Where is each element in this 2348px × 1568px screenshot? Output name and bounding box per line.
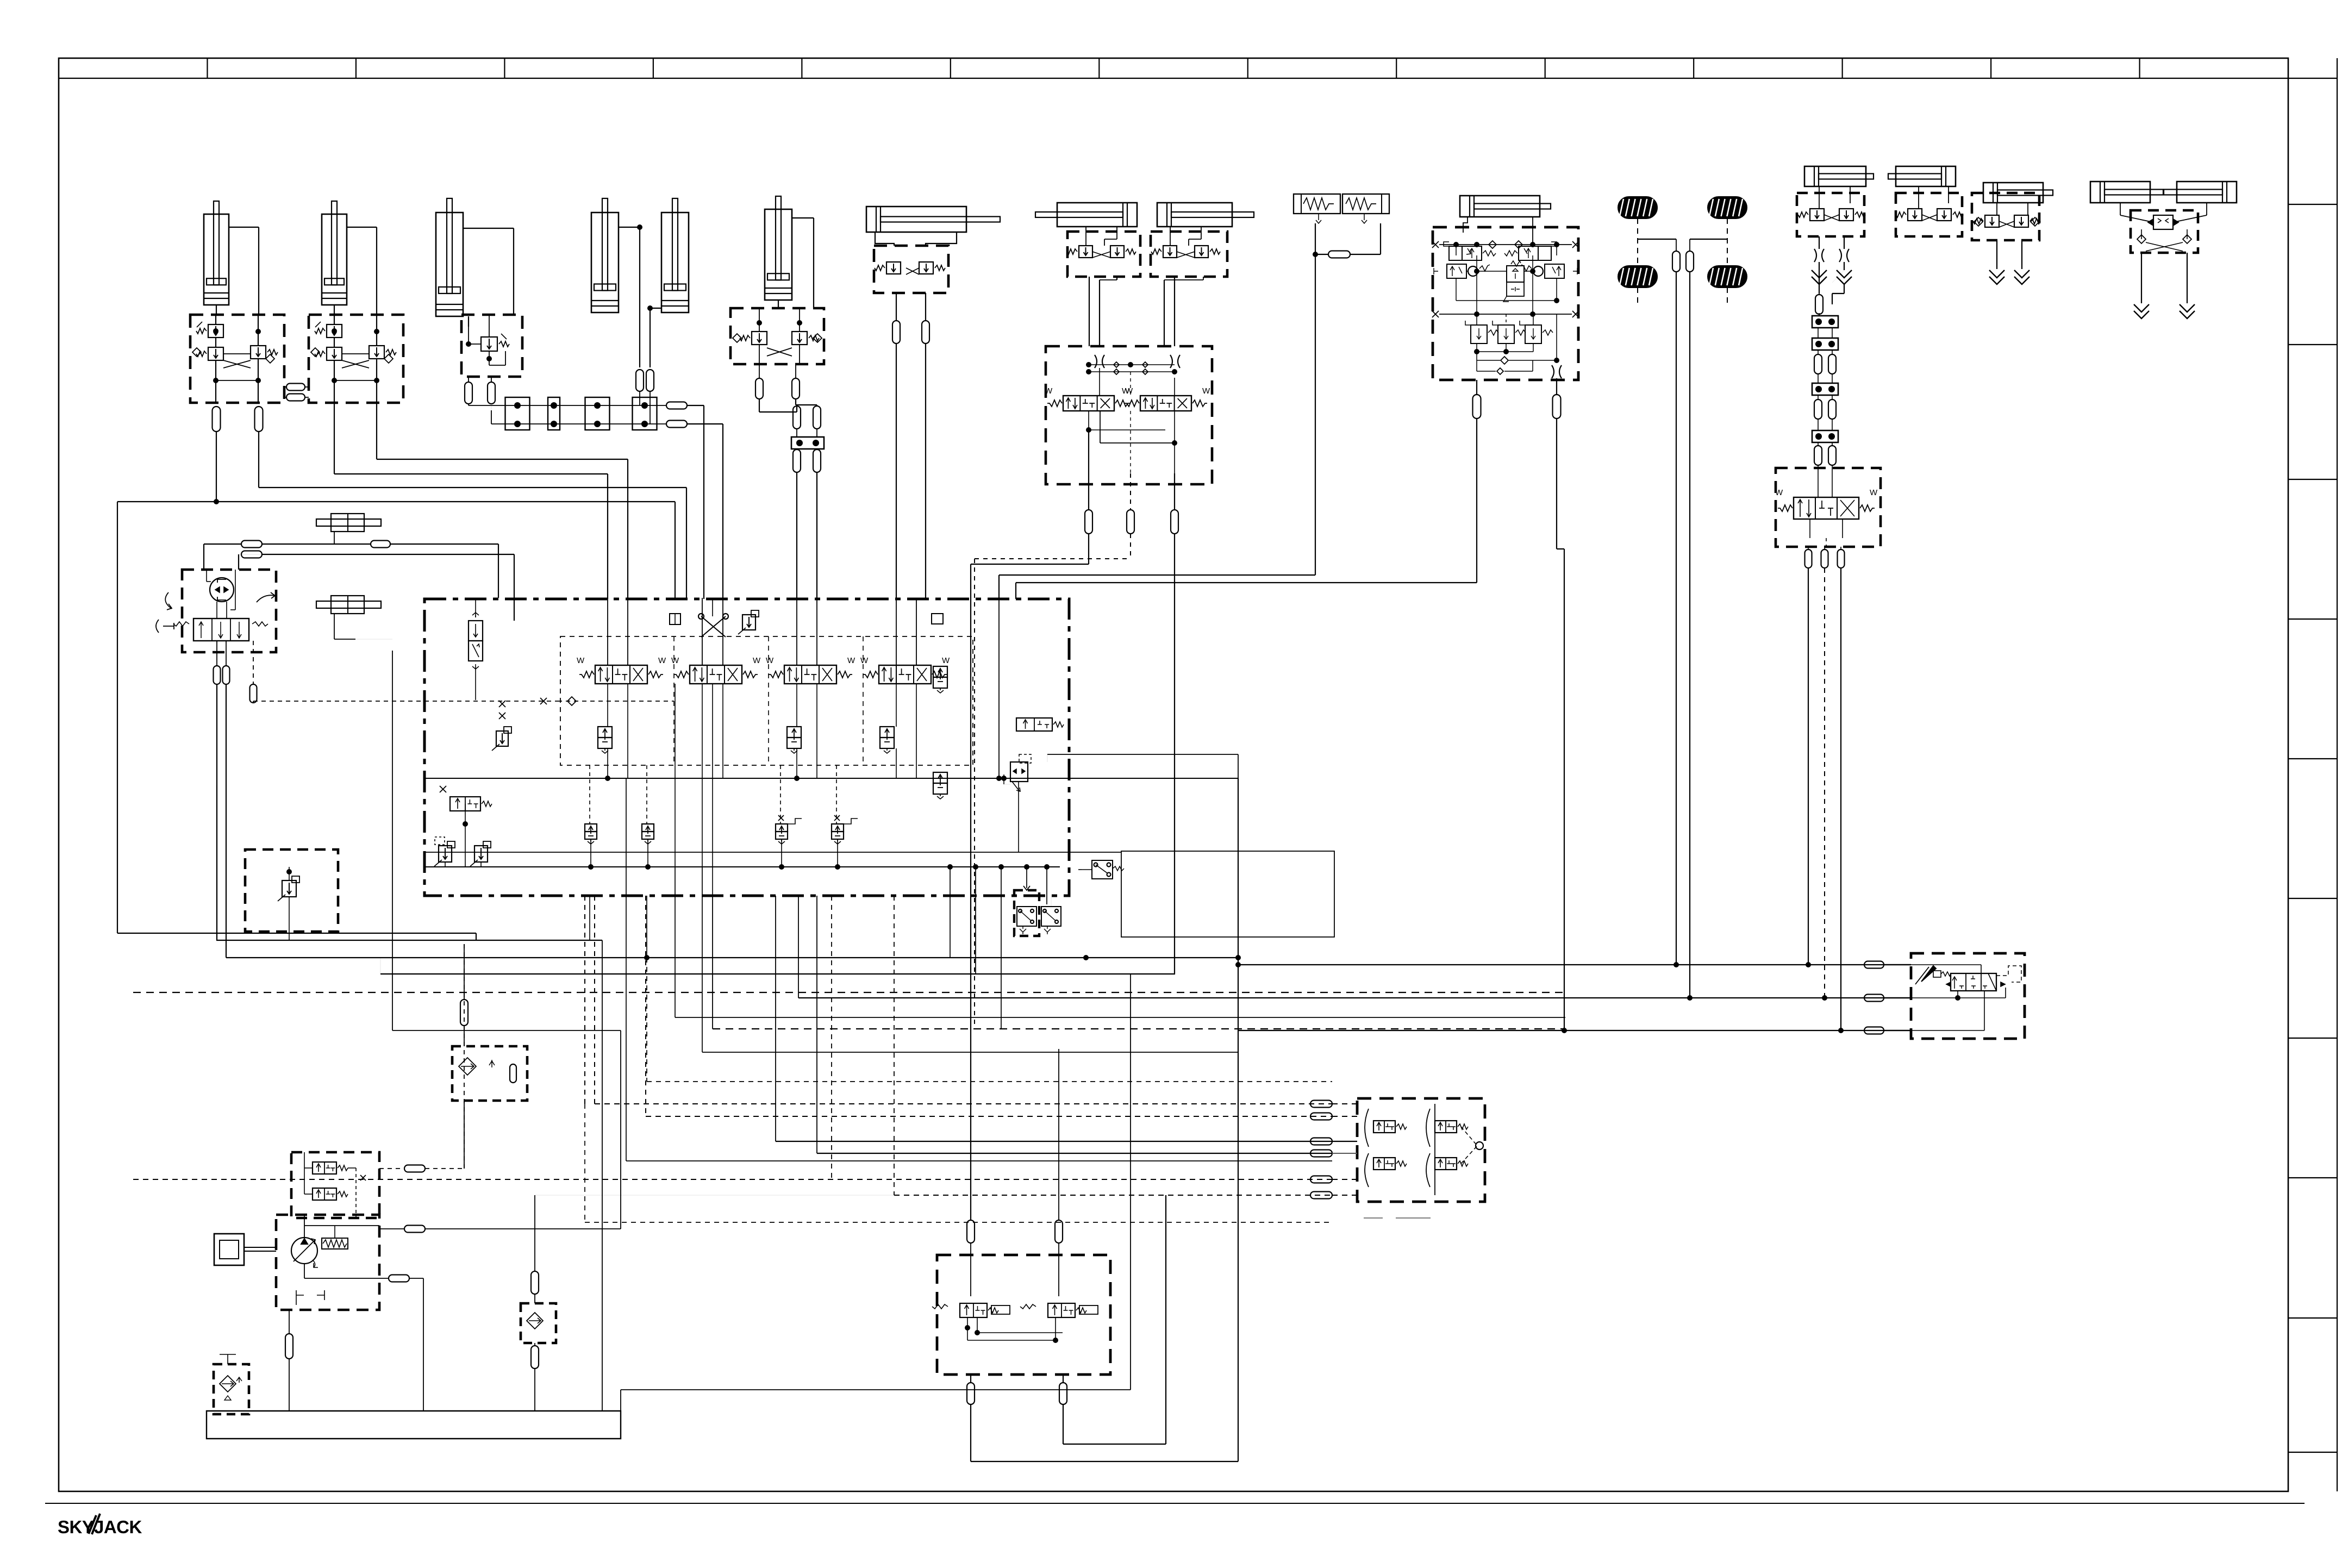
wire MB9 bottom xyxy=(1476,314,1477,325)
switch SW1 xyxy=(1092,860,1113,879)
wire MB16 bottom-left xyxy=(445,862,446,867)
valve PV2 xyxy=(787,727,801,738)
wire bus y1896 xyxy=(1238,1030,1911,1031)
shuttle X1 xyxy=(701,616,726,637)
cylinder CYL7 xyxy=(866,207,966,232)
wire bus y1893 pilot xyxy=(713,1028,1565,1029)
wire SC ports xyxy=(1819,186,1820,209)
wire CYL3 ports xyxy=(463,228,514,229)
lever L2 xyxy=(1921,966,1936,982)
wire top buses xyxy=(204,544,241,545)
valve CB1c xyxy=(251,346,266,359)
coupler CH3 xyxy=(1989,270,2004,278)
valve CB10a xyxy=(1810,209,1824,221)
wire y2100 from manifold xyxy=(776,1141,1332,1142)
wire bus y1717 xyxy=(117,933,476,934)
svg-text:W: W xyxy=(847,656,855,665)
fitting F52 xyxy=(967,1383,975,1404)
valve LW2 xyxy=(1048,1303,1075,1317)
svg-text:W: W xyxy=(1202,386,1210,396)
valve CB6a xyxy=(1079,246,1092,258)
valve LV5 (center relief) xyxy=(1507,266,1524,282)
fitting F60 xyxy=(531,1346,539,1369)
wire MB16 valve bottom drops xyxy=(627,684,628,778)
fitting F36 xyxy=(241,551,262,558)
wire MB16 mid xyxy=(607,684,608,727)
wire pump internal xyxy=(304,1215,305,1238)
valve LV2 xyxy=(1519,246,1538,260)
fitting F14 xyxy=(813,406,821,429)
valve CB10b xyxy=(1839,209,1853,221)
wire to risers xyxy=(687,405,704,406)
manifold MB21 (pump box) xyxy=(276,1215,379,1310)
wire y2122 xyxy=(817,1153,1332,1154)
wheel W1 xyxy=(1618,197,1657,218)
valve CB4b xyxy=(792,332,807,345)
fitting F57 xyxy=(389,1275,409,1282)
valve BR1 xyxy=(1373,1121,1395,1133)
fitting F10 xyxy=(666,421,687,428)
wire MC1 xyxy=(334,532,335,544)
valve CB13a xyxy=(1985,215,1999,227)
wire MB3 internal xyxy=(468,327,469,344)
valve FD1 xyxy=(2153,215,2173,229)
wire MB9 x-bus xyxy=(1439,314,1572,315)
svg-text:W: W xyxy=(658,656,666,665)
coupler CH2 xyxy=(1837,270,1852,278)
fitting F46 xyxy=(1310,1138,1332,1145)
manifold MB2 (counterbalance box) xyxy=(309,315,403,403)
wire CYL7 bracket xyxy=(875,232,957,246)
cylinder CYL4 xyxy=(602,198,608,291)
manifold MB14 (flow divider box) xyxy=(2131,210,2198,253)
wire bus y1762 xyxy=(226,957,1238,958)
manifold MB18 (brake release box) xyxy=(1357,1098,1485,1202)
wire MB19 drops xyxy=(970,1375,971,1383)
cylinder SB1 (spring brake) xyxy=(1294,194,1340,214)
wire orbitrol risers xyxy=(216,684,217,940)
wire bus y1730 xyxy=(216,940,602,941)
wire MC2 xyxy=(334,614,335,639)
valve SV2 xyxy=(1016,718,1052,731)
wire CYL7 risers xyxy=(896,293,897,321)
svg-text:W: W xyxy=(1045,386,1053,396)
svg-text:W: W xyxy=(753,656,761,665)
wire bus y1775 xyxy=(1238,964,1911,965)
wire pump out case xyxy=(379,1278,389,1279)
wire wheel stubs xyxy=(1637,288,1638,304)
wire MB18 tags xyxy=(1364,1217,1383,1219)
fitting F41 xyxy=(1864,961,1884,969)
valve RV7 xyxy=(474,846,488,862)
valve CB11a xyxy=(1908,209,1922,221)
fitting F30 xyxy=(1814,399,1822,419)
wire CYL6 risers xyxy=(796,429,797,437)
wire box2 drop A xyxy=(334,403,335,474)
valve PV1 xyxy=(598,727,612,738)
wire CYL2 ports xyxy=(347,227,377,228)
fitting F48 xyxy=(1310,1176,1332,1183)
coupler CH6 xyxy=(2180,304,2195,312)
fitting F22 xyxy=(1328,251,1350,258)
wire SB lines xyxy=(1315,223,1316,254)
wire orbitrol drops xyxy=(216,641,217,666)
wire pump drain xyxy=(289,1310,290,1334)
wire MB16 valve risers xyxy=(607,598,608,665)
wire MB18 feeds xyxy=(1332,1103,1357,1104)
fitting F30b xyxy=(1814,446,1822,465)
valve DV16D xyxy=(879,665,931,684)
cylinder CYL8A xyxy=(1057,203,1137,227)
tank T1 xyxy=(207,1411,621,1439)
wire bus y1826 pilot xyxy=(133,992,1565,993)
valve 42V xyxy=(469,621,483,641)
manifold MB11 xyxy=(1896,193,1962,236)
fitting F3 link xyxy=(286,384,305,391)
junction J5 xyxy=(791,437,824,449)
manifold MB23 (filter check) xyxy=(452,1046,527,1101)
wire CYL9 ports xyxy=(1463,217,1467,233)
valve CB5b xyxy=(919,262,933,274)
cylinder CYL12 xyxy=(2177,182,2237,203)
fitting F9 xyxy=(666,402,687,409)
valve DV16A xyxy=(595,665,647,684)
wire MB16 inner dividers xyxy=(673,636,675,765)
valve BV2 xyxy=(642,824,654,832)
fitting F33 xyxy=(1821,549,1828,568)
manifold MB20 (brake valve box) xyxy=(291,1152,379,1218)
valve CB11b xyxy=(1937,209,1951,221)
valve BV3 xyxy=(776,824,788,832)
fitting F1 xyxy=(213,407,221,432)
svg-text:W: W xyxy=(1775,488,1783,497)
fitting F26 xyxy=(1686,251,1694,272)
component SQ2 xyxy=(932,614,943,624)
wire wheel drops xyxy=(1676,272,1677,965)
pump P2 (gerotor) xyxy=(210,578,234,602)
valve CK1 xyxy=(282,880,296,897)
coupler CH4 xyxy=(2014,270,2029,278)
title strip bottom line xyxy=(59,78,2288,79)
wire bus y1792 xyxy=(380,973,1175,974)
valve LV3 xyxy=(1447,264,1466,278)
svg-text:W: W xyxy=(860,656,869,665)
wire CYL6 ports xyxy=(792,217,814,218)
fitting F4 link xyxy=(286,394,305,401)
fitting F37 xyxy=(371,541,390,548)
wire MB9 top bus xyxy=(1439,244,1572,245)
manifold MB24 (return filter) xyxy=(521,1303,556,1343)
valve RV1 xyxy=(1471,325,1487,343)
cylinder CYL11 xyxy=(2090,182,2150,203)
wire steer drop A xyxy=(1819,236,1820,249)
wire CYL11-12 drops xyxy=(2141,253,2142,303)
fitting F17 xyxy=(892,321,900,343)
fitting F31b xyxy=(1828,446,1836,465)
fitting F31 xyxy=(1828,399,1836,419)
wire xyxy=(1819,293,1820,295)
fitting F44 xyxy=(1310,1101,1332,1108)
wire MB19 tank returns xyxy=(970,1404,971,1461)
fitting F29 xyxy=(1828,354,1836,374)
manifold MB16 (main valve block) xyxy=(424,599,1069,896)
wheel W2 xyxy=(1708,197,1747,218)
fitting F38 xyxy=(214,666,221,684)
wire MB2 internal xyxy=(334,315,335,324)
wire steer drop B xyxy=(1844,236,1845,249)
fitting F42 xyxy=(1864,995,1884,1002)
fitting F7 xyxy=(636,370,644,391)
fitting F34 xyxy=(1838,549,1845,568)
valve CB6b xyxy=(1110,246,1124,258)
wire y2054 xyxy=(646,1116,1332,1117)
manifold MB4 (counterbalance box) xyxy=(730,308,824,364)
valve DV8A xyxy=(1063,396,1114,411)
fitting F45 xyxy=(1310,1113,1332,1120)
svg-text:SKY: SKY xyxy=(58,1517,94,1537)
wire MB14 internal xyxy=(2120,203,2121,215)
valve CB7b xyxy=(1195,246,1208,258)
manifold MB12 (steer selector) xyxy=(1776,468,1881,547)
valve DV15 xyxy=(193,619,249,641)
wire MB8 long drops xyxy=(1088,534,1089,564)
wire bus y1836 xyxy=(798,997,1911,998)
wire left drop x216 xyxy=(117,502,118,933)
valve DV16C xyxy=(784,665,836,684)
manifold MB13 xyxy=(1972,193,2039,240)
wire MB19 internal xyxy=(967,1317,968,1340)
wire CYL8B ports xyxy=(1170,227,1171,246)
right margin column xyxy=(2337,58,2338,1491)
junction J6 xyxy=(1812,316,1838,328)
wire MB4 internal xyxy=(759,308,760,332)
cylinder CYL6 xyxy=(776,196,781,280)
wire orbitrol internal xyxy=(216,602,217,619)
fitting F24 xyxy=(1553,395,1561,418)
fitting F49 xyxy=(1310,1192,1332,1199)
valve BR3 xyxy=(1373,1158,1395,1170)
orifice O2 xyxy=(1170,355,1172,368)
valve CB3 xyxy=(481,337,497,351)
wire MB16 bus y1568 xyxy=(424,852,1121,853)
svg-text:W: W xyxy=(1870,488,1878,497)
fitting F19 xyxy=(1085,510,1092,534)
valve SV1 xyxy=(450,797,480,811)
wire CYL10 drops xyxy=(1996,240,1997,269)
orifice O1 xyxy=(1095,355,1097,368)
wire MB16 inner dashed frame xyxy=(560,636,973,765)
manifold MB10 xyxy=(1797,193,1864,236)
valve BR4 xyxy=(1435,1158,1457,1170)
fitting F47 xyxy=(1310,1150,1332,1157)
valve DV12 xyxy=(1794,497,1859,519)
lever L1 xyxy=(156,620,174,633)
coupler CH1 xyxy=(1812,270,1827,278)
valve BV6 xyxy=(313,1188,336,1200)
valve PV5 xyxy=(933,772,947,783)
wire y2199 xyxy=(894,1195,1332,1196)
valve RV5 xyxy=(496,731,508,746)
footer rule xyxy=(45,1503,2305,1504)
fitting F54 xyxy=(285,1334,293,1359)
wire filter chain xyxy=(534,1195,535,1271)
wire MB16 bottom drops xyxy=(950,867,951,958)
cylinder CYL5 xyxy=(672,198,678,291)
fitting F59 xyxy=(531,1271,539,1294)
fitting F43 xyxy=(1864,1027,1884,1034)
fitting F20 xyxy=(1127,510,1134,534)
cylinder CYL9 xyxy=(1460,196,1540,217)
valve CB4a xyxy=(752,332,767,345)
valve LV4 xyxy=(1545,264,1564,278)
fitting F23 xyxy=(1473,395,1481,418)
valve CB2c xyxy=(369,346,384,359)
valve CB2a xyxy=(327,324,342,338)
manifold MB17 (steer control) xyxy=(1911,953,2025,1039)
junction J4 xyxy=(633,397,657,430)
cylinder CYL8B xyxy=(1157,203,1232,227)
valve PV3 xyxy=(880,727,894,738)
wire MB8 lower internal xyxy=(1088,411,1089,430)
manifold MB1 (counterbalance box) xyxy=(190,315,284,403)
fitting F21 xyxy=(1171,510,1178,534)
fitting F18 xyxy=(922,321,929,343)
valve CB5a xyxy=(886,262,901,274)
wire tank entries xyxy=(290,1410,291,1411)
cylinder CYL10 xyxy=(1983,183,2043,203)
fitting F28 xyxy=(1814,354,1822,374)
valve BR2 xyxy=(1435,1121,1457,1133)
fitting F12 xyxy=(792,378,800,399)
wire y2170 xyxy=(133,1179,1332,1180)
wire bus y897 xyxy=(258,431,259,488)
fitting F56 xyxy=(404,1226,425,1233)
junction J2 xyxy=(548,397,560,430)
valve PV4 xyxy=(933,666,947,677)
svg-text:W: W xyxy=(766,656,774,665)
wire MB16 left internal xyxy=(475,598,476,617)
orifice O3 xyxy=(1814,249,1816,262)
wire CYL8A ports xyxy=(1085,227,1086,246)
fitting F58 xyxy=(460,999,468,1026)
wire pump out pilot xyxy=(379,1168,404,1169)
fitting F8 xyxy=(646,370,654,391)
valve BV5 xyxy=(313,1162,336,1174)
junction J1 xyxy=(505,397,530,430)
valve CB1a xyxy=(208,324,223,338)
cylinder SB2 (spring brake) xyxy=(1342,194,1389,214)
fitting F50 xyxy=(967,1220,975,1243)
title strip cell dividers xyxy=(207,58,208,78)
wire xyxy=(1819,262,1820,293)
fitting F55 xyxy=(404,1165,425,1172)
fitting F40 xyxy=(250,684,257,703)
master cylinder MC1 xyxy=(316,519,381,526)
valve LV1 xyxy=(1462,246,1482,260)
fitting F27 xyxy=(1815,295,1823,314)
wire steer chain xyxy=(1819,313,1820,316)
valve RV3 xyxy=(1525,325,1541,343)
wire y2031 xyxy=(595,1103,1332,1104)
junction J6b xyxy=(1812,338,1838,350)
junction J3 xyxy=(585,397,610,430)
switch PS2 xyxy=(1041,907,1061,926)
wire pilot dashed xyxy=(253,701,254,703)
cylinder CYL1 xyxy=(214,201,219,285)
wire box2 drop B xyxy=(376,403,377,459)
manifold MB25 (suction strainer) xyxy=(214,1364,249,1414)
wire CYL4-CYL5 ports xyxy=(619,227,640,228)
fitting F53 xyxy=(1059,1383,1067,1404)
fitting F35 xyxy=(241,541,262,548)
enclosure E1 xyxy=(1121,851,1334,937)
valve LW1 xyxy=(960,1303,987,1317)
wire MB8 drops xyxy=(1088,430,1089,510)
fitting F51 xyxy=(1055,1220,1063,1243)
wire MB16 inner verticals xyxy=(590,839,591,867)
wire MB19 feeds xyxy=(1058,1049,1059,1220)
coupler CH5 xyxy=(2134,304,2149,312)
valve BV1 xyxy=(585,824,597,832)
valve RV8 xyxy=(1010,762,1028,782)
wire CYL10 ports xyxy=(1996,203,1997,215)
valve RV6 xyxy=(439,846,452,862)
valve CB2b xyxy=(327,347,342,360)
wire CYL6 chain xyxy=(759,399,760,412)
wire MB9 drops xyxy=(1476,380,1477,395)
wire MB12 internal xyxy=(1818,465,1819,497)
junction J8 xyxy=(1812,430,1838,442)
wheel W4 xyxy=(1708,266,1747,288)
manifold MB19 (emergency lowering) xyxy=(937,1255,1110,1375)
wire pump out main xyxy=(379,1228,404,1229)
pump P1 xyxy=(291,1238,317,1264)
fitting F11 xyxy=(755,378,763,399)
orifice O5 xyxy=(1552,365,1554,378)
fitting F2 xyxy=(255,407,263,432)
component SQ1 xyxy=(670,614,680,624)
manifold MB5 (counterbalance box) xyxy=(874,246,948,293)
valve CB7a xyxy=(1163,246,1177,258)
wire MB16 horizontal buses xyxy=(424,778,1238,779)
orifice O4 xyxy=(1839,249,1841,262)
wire MB8 top internal xyxy=(1089,364,1175,365)
wire MB20 internal xyxy=(304,1152,305,1194)
cylinder SC2 xyxy=(1896,166,1956,186)
fitting F16 xyxy=(813,449,821,472)
valve CB13b xyxy=(2014,215,2028,227)
motor M1 xyxy=(214,1234,244,1265)
wire MB1 internal xyxy=(215,315,216,324)
wire switch feeds xyxy=(1051,896,1052,907)
wire junction row xyxy=(469,405,666,406)
wire MB18 internal xyxy=(1365,1109,1369,1147)
cylinder CYL2 xyxy=(332,201,337,285)
manifold MB22 (check box) xyxy=(245,849,338,932)
wire MB16 top lines xyxy=(712,598,713,616)
wire MB9 long drops xyxy=(1476,418,1477,583)
junction J7 xyxy=(1812,383,1838,395)
manifold MB8 (lockout valve box) xyxy=(1046,346,1212,484)
wheel W3 xyxy=(1618,266,1657,288)
SKYJACK logo xyxy=(58,1514,142,1537)
valve DV17 xyxy=(1951,973,1996,991)
wire MB9 mid xyxy=(1466,271,1468,272)
fitting F13 xyxy=(793,406,801,429)
fitting F32 xyxy=(1805,549,1812,568)
valve RV2 xyxy=(1498,325,1514,343)
wire MB6 MB7 risers xyxy=(1089,277,1090,346)
